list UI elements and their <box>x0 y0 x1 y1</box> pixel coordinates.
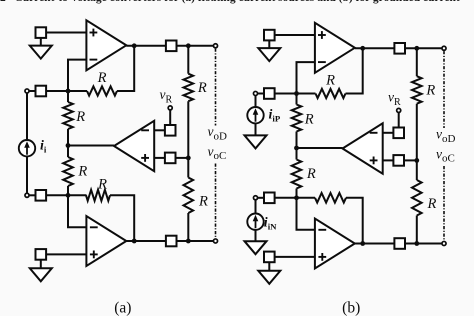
svg-text:voC: voC <box>436 146 455 164</box>
wire a: mid + pad to right column <box>176 157 189 159</box>
wire b: node column to mid <box>296 132 298 160</box>
node a top right junction <box>186 43 191 48</box>
wire b: terminal to pad top <box>258 93 264 95</box>
wire b: right column lower lead <box>416 216 418 244</box>
wire b: node column upper <box>296 94 298 105</box>
wire a: mid node to middle op-amp <box>68 145 114 147</box>
op-amp Ua2 - pin <box>141 129 149 131</box>
svg-text:R: R <box>425 83 435 99</box>
wire b: ground stem top-left <box>268 40 270 48</box>
resistor R lower vertical b <box>292 160 302 189</box>
op-amp Ua2 (middle, output left) <box>114 121 154 171</box>
pad square a-out-top <box>166 41 177 52</box>
wire a: top op-amp - input <box>68 60 86 91</box>
svg-text:voD: voD <box>436 127 456 145</box>
current source I2 i_iP <box>247 107 263 123</box>
ground bottom a <box>30 268 52 281</box>
wire b: feedback top <box>346 48 363 93</box>
svg-text:R: R <box>198 194 208 210</box>
wire a: pad to node bottom <box>46 194 86 196</box>
input terminal a bottom <box>25 193 29 197</box>
wire b: mid + pad to right column <box>404 159 417 161</box>
pad square a-input-top <box>36 86 47 97</box>
resistor R feedback top a <box>87 86 117 95</box>
ground top-left b <box>258 48 280 61</box>
node a bottom output junction <box>132 239 137 244</box>
dashed line a lower <box>215 164 217 239</box>
wire a: node column upper <box>67 91 69 102</box>
wire a: right column middle <box>187 101 189 177</box>
svg-text:R: R <box>426 196 436 212</box>
node b top right junction <box>414 46 419 51</box>
svg-text:voC: voC <box>208 144 227 162</box>
wire b: middle - input <box>383 132 394 134</box>
svg-text:iiN: iiN <box>264 216 277 232</box>
input terminal b top <box>253 91 257 95</box>
pad square b-out-top <box>394 43 405 54</box>
wire b: pad to node bottom <box>275 197 315 199</box>
current source I3 i_iN <box>247 214 263 230</box>
wire b: right column upper lead <box>416 48 418 76</box>
resistor R upper vertical b <box>292 105 302 132</box>
wire a: pad to node top <box>46 90 87 92</box>
node a middle <box>66 143 71 148</box>
wire a: feedback bottom <box>110 195 134 241</box>
node a top output junction <box>132 43 137 48</box>
wire b: vR stem <box>398 113 400 128</box>
wire b: right column middle <box>416 104 418 180</box>
pad square a-vR <box>165 125 176 136</box>
wire a: middle + input <box>154 157 165 159</box>
wire b: terminal to pad bottom <box>258 197 264 199</box>
wire b: node column lower <box>296 189 298 198</box>
dashed line a upper <box>215 49 217 126</box>
wire a: source column lower <box>26 156 28 193</box>
wire b: iN source upper <box>255 200 257 214</box>
wire b: bottom output to terminal <box>405 243 442 245</box>
caption (clipped at top) <box>0 0 474 4</box>
node a bottom right junction <box>186 239 191 244</box>
wire b: feedback bottom <box>346 198 363 244</box>
svg-text:R: R <box>97 70 107 86</box>
wire a: top op-amp + input <box>46 32 86 34</box>
op-amp Ub3 + pin <box>318 256 326 258</box>
resistor R right upper a <box>184 74 194 102</box>
node b middle <box>294 146 299 151</box>
output terminal a bottom <box>213 239 217 243</box>
pad square a-out-bottom <box>166 236 177 247</box>
node b top input <box>294 91 299 96</box>
pad square b-mid-plus <box>393 155 404 166</box>
op-amp Ua3 (bottom) <box>86 216 126 266</box>
wire a: bottom op-amp + input <box>46 253 86 255</box>
svg-text:(a): (a) <box>114 300 131 316</box>
wire a: bottom output to terminal <box>177 240 214 242</box>
wire b: ground stem bottom <box>268 262 270 271</box>
resistor R right lower a <box>184 178 194 214</box>
wire a: source column upper <box>26 93 28 140</box>
node b bottom output junction <box>360 241 365 246</box>
pad square b-bottom-gnd <box>264 252 275 263</box>
wire a: ground stem bottom <box>40 260 42 269</box>
svg-text:vR: vR <box>388 90 401 108</box>
wire b: bottom op-amp - input <box>297 198 315 230</box>
wire a: node column to mid <box>67 129 69 157</box>
pad square a-mid-plus <box>165 153 176 164</box>
resistor R right upper b <box>412 76 422 104</box>
wire b: mid node to middle op-amp <box>297 147 343 149</box>
svg-text:R: R <box>304 112 314 128</box>
pad square b-input-bottom <box>264 193 275 204</box>
svg-text:ii: ii <box>40 139 47 155</box>
pad square a-input-bottom <box>36 190 47 201</box>
dashed line b lower <box>443 166 445 241</box>
pad square a-top-left <box>36 27 47 38</box>
output terminal b bottom <box>442 241 446 245</box>
wire a: top output to terminal <box>177 45 214 47</box>
ground under iP <box>245 135 267 148</box>
svg-text:R: R <box>75 109 85 125</box>
svg-text:voD: voD <box>208 124 228 142</box>
terminal vR a <box>168 106 172 110</box>
pad square b-out-bottom <box>394 238 405 249</box>
input terminal a top <box>25 89 29 93</box>
resistor R right lower b <box>412 180 422 216</box>
wire a: right column lower lead <box>187 213 189 241</box>
ground under iN <box>245 241 267 254</box>
wire b: top output to terminal <box>405 47 442 49</box>
output terminal a top <box>213 44 217 48</box>
op-amp Ua1 (top) <box>86 20 126 70</box>
svg-text:vR: vR <box>160 87 173 105</box>
dashed line b upper <box>443 51 445 128</box>
node b top output junction <box>360 46 365 51</box>
op-amp Ua2 + pin <box>141 157 149 159</box>
wire a: middle - input <box>154 129 165 131</box>
terminal vR b <box>397 108 401 112</box>
wire a: right column upper lead <box>187 46 189 74</box>
output terminal b top <box>442 46 446 50</box>
op-amp Ub1 + pin <box>318 34 326 36</box>
svg-text:R: R <box>77 164 87 180</box>
svg-text:R: R <box>97 177 107 193</box>
resistor R lower vertical a <box>63 157 73 186</box>
pad square a-bottom-gnd <box>36 249 47 260</box>
ground bottom b <box>258 271 280 284</box>
resistor R upper vertical a <box>63 102 73 129</box>
op-amp Ub1 - pin <box>318 61 326 63</box>
wire b: bottom op-amp + input <box>275 256 315 258</box>
wire a: node column lower <box>67 186 69 195</box>
current source I1 i_i <box>19 140 35 156</box>
node b bottom input <box>294 195 299 200</box>
svg-text:R: R <box>197 80 207 96</box>
node a right mid junction <box>186 156 191 161</box>
wire b: iP source upper <box>255 96 257 107</box>
node b right mid junction <box>414 158 419 163</box>
op-amp Ua1 - pin <box>90 59 98 61</box>
op-amp Ua3 + pin <box>90 253 98 255</box>
wire b: top output <box>355 47 395 49</box>
wire b: top op-amp - input <box>297 62 315 93</box>
pad square b-vR <box>393 128 404 139</box>
resistor R feedback top b <box>316 89 346 98</box>
wire b: pad to node top <box>275 93 316 95</box>
node a top input <box>66 89 71 94</box>
pad square b-input-top <box>264 88 275 99</box>
resistor R feedback bottom b <box>315 193 346 203</box>
svg-text:R: R <box>325 73 335 89</box>
op-amp Ub3 - pin <box>318 229 326 231</box>
wire b: iN source lower <box>255 230 257 241</box>
svg-text:iiP: iiP <box>269 108 281 124</box>
op-amp Ub2 - pin <box>370 132 378 134</box>
node a bottom input <box>66 193 71 198</box>
node b bottom right junction <box>414 241 419 246</box>
pad square b-top-left <box>264 30 275 41</box>
wire a: vR stem <box>169 110 171 125</box>
op-amp Ub2 (middle, output left) <box>343 123 383 173</box>
op-amp Ub1 (top) <box>315 23 355 73</box>
svg-text:R: R <box>306 166 316 182</box>
op-amp Ub2 + pin <box>370 159 378 161</box>
wire a: bottom output <box>126 240 166 242</box>
op-amp Ua1 + pin <box>90 32 98 34</box>
op-amp Ua3 - pin <box>90 226 98 228</box>
wire a: ground stem top-left <box>40 38 42 46</box>
wire b: top op-amp + input <box>275 34 315 36</box>
op-amp Ub3 (bottom) <box>315 219 355 269</box>
wire b: iP source lower <box>255 124 257 136</box>
wire a: terminal to pad top <box>29 90 35 92</box>
wire a: terminal to pad bottom <box>29 194 35 196</box>
ground top-left a <box>30 46 52 59</box>
wire b: middle + input <box>383 159 394 161</box>
resistor R feedback bottom a <box>86 190 110 201</box>
svg-text:(b): (b) <box>342 300 360 316</box>
input terminal b bottom <box>253 196 257 200</box>
wire a: feedback top <box>117 46 134 91</box>
wire a: top output <box>126 45 166 47</box>
wire b: bottom output <box>355 243 395 245</box>
wire a: bottom op-amp - input <box>68 195 86 227</box>
